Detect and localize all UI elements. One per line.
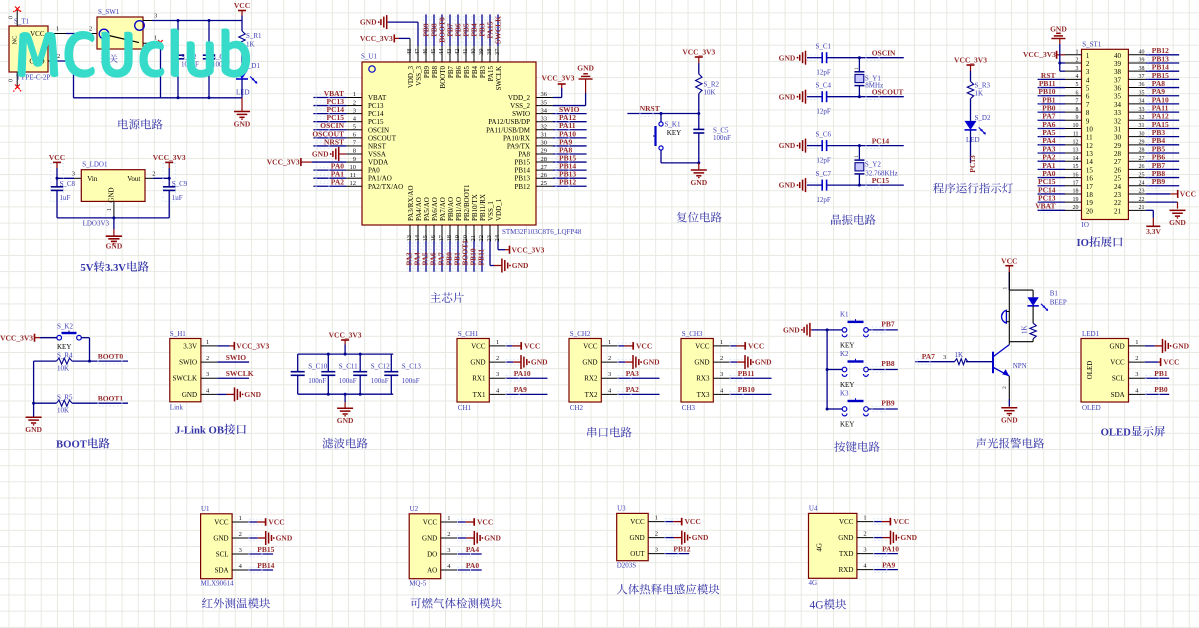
svg-text:GND: GND bbox=[106, 241, 123, 250]
svg-text:25: 25 bbox=[1139, 172, 1145, 178]
svg-text:TX1: TX1 bbox=[473, 391, 486, 399]
svg-text:38: 38 bbox=[1139, 66, 1145, 72]
svg-text:SWCLK: SWCLK bbox=[173, 375, 198, 383]
svg-text:10K: 10K bbox=[704, 88, 716, 96]
svg-text:32.768KHz: 32.768KHz bbox=[865, 170, 897, 178]
svg-text:39: 39 bbox=[1114, 60, 1122, 68]
svg-text:20: 20 bbox=[1073, 205, 1079, 211]
svg-text:SWCLK: SWCLK bbox=[495, 66, 503, 91]
svg-text:GND: GND bbox=[577, 64, 594, 73]
svg-text:PB11/RX: PB11/RX bbox=[479, 194, 487, 221]
svg-text:GND: GND bbox=[779, 92, 796, 101]
svg-text:GND: GND bbox=[1001, 416, 1018, 425]
svg-text:1: 1 bbox=[56, 26, 59, 33]
svg-text:35: 35 bbox=[1139, 90, 1145, 96]
svg-text:VDDA: VDDA bbox=[368, 159, 388, 167]
svg-text:VCC: VCC bbox=[893, 517, 909, 526]
svg-text:17: 17 bbox=[1086, 183, 1094, 191]
svg-text:GND: GND bbox=[1050, 24, 1067, 33]
svg-text:PA11/USB/DM: PA11/USB/DM bbox=[486, 126, 531, 134]
svg-text:S_H1: S_H1 bbox=[170, 330, 186, 338]
svg-text:5: 5 bbox=[1076, 82, 1079, 88]
svg-text:GND: GND bbox=[779, 181, 796, 190]
svg-text:12pF: 12pF bbox=[816, 157, 831, 165]
svg-text:15: 15 bbox=[422, 235, 429, 242]
svg-text:3: 3 bbox=[239, 547, 242, 554]
svg-text:VCC: VCC bbox=[1163, 358, 1179, 367]
svg-text:3: 3 bbox=[1076, 66, 1079, 72]
svg-text:VBAT: VBAT bbox=[1035, 202, 1055, 211]
svg-text:3: 3 bbox=[496, 371, 499, 378]
svg-text:37: 37 bbox=[1139, 74, 1145, 80]
svg-text:PA6/AO: PA6/AO bbox=[431, 197, 439, 221]
svg-text:7: 7 bbox=[1076, 99, 1079, 105]
svg-text:D203S: D203S bbox=[617, 561, 637, 569]
svg-text:15: 15 bbox=[1073, 164, 1079, 170]
svg-text:2: 2 bbox=[720, 355, 723, 362]
svg-text:35: 35 bbox=[541, 99, 548, 106]
svg-text:VDD_2: VDD_2 bbox=[508, 94, 531, 102]
svg-text:29: 29 bbox=[1139, 140, 1145, 146]
svg-text:14: 14 bbox=[1073, 156, 1079, 162]
svg-text:S_SW1: S_SW1 bbox=[98, 8, 120, 16]
svg-text:10K: 10K bbox=[57, 364, 69, 372]
svg-text:2: 2 bbox=[152, 170, 155, 177]
svg-text:VSS_3: VSS_3 bbox=[415, 66, 423, 86]
svg-text:VCC_3V3: VCC_3V3 bbox=[1023, 50, 1056, 59]
svg-text:S_T1: S_T1 bbox=[14, 18, 30, 26]
svg-text:42: 42 bbox=[454, 49, 461, 56]
svg-text:PB10/TX: PB10/TX bbox=[471, 194, 479, 221]
svg-text:44: 44 bbox=[438, 48, 445, 55]
svg-text:PA2: PA2 bbox=[331, 178, 344, 187]
svg-text:VCC: VCC bbox=[49, 153, 65, 162]
svg-text:AO: AO bbox=[427, 567, 437, 575]
svg-text:GND: GND bbox=[244, 390, 261, 399]
svg-text:PC15: PC15 bbox=[368, 118, 384, 126]
svg-text:KEY: KEY bbox=[57, 343, 71, 351]
svg-text:32: 32 bbox=[1139, 115, 1145, 121]
svg-text:17: 17 bbox=[1073, 180, 1079, 186]
svg-text:BOOT: BOOT bbox=[56, 439, 87, 451]
svg-text:2: 2 bbox=[1086, 60, 1090, 68]
svg-text:PB15: PB15 bbox=[514, 159, 530, 167]
svg-text:41: 41 bbox=[462, 49, 469, 56]
svg-text:VCC_3V3: VCC_3V3 bbox=[360, 34, 393, 43]
svg-text:S_R2: S_R2 bbox=[704, 81, 720, 89]
svg-text:S_C6: S_C6 bbox=[816, 130, 832, 138]
svg-text:11: 11 bbox=[1086, 134, 1093, 142]
svg-text:1: 1 bbox=[1076, 50, 1079, 56]
svg-text:33: 33 bbox=[1114, 109, 1122, 117]
svg-text:S_CH1: S_CH1 bbox=[458, 330, 479, 338]
svg-text:12: 12 bbox=[350, 180, 357, 187]
svg-text:31: 31 bbox=[541, 132, 548, 139]
svg-text:VCC_3V3: VCC_3V3 bbox=[329, 331, 362, 340]
svg-text:S_C9: S_C9 bbox=[172, 180, 188, 188]
svg-text:14: 14 bbox=[1086, 158, 1094, 166]
svg-text:VCC: VCC bbox=[30, 30, 45, 38]
svg-text:S_R3: S_R3 bbox=[975, 81, 991, 89]
svg-text:IO: IO bbox=[1082, 221, 1089, 229]
svg-text:3: 3 bbox=[206, 371, 209, 378]
svg-text:16: 16 bbox=[430, 234, 437, 241]
svg-text:GND: GND bbox=[1110, 342, 1125, 350]
svg-text:VDD_3: VDD_3 bbox=[407, 66, 415, 89]
svg-text:PA8: PA8 bbox=[518, 150, 530, 158]
svg-text:PA9/TX: PA9/TX bbox=[507, 142, 530, 150]
svg-text:J-Link OB: J-Link OB bbox=[175, 425, 224, 437]
svg-text:CH2: CH2 bbox=[570, 404, 584, 412]
svg-text:46: 46 bbox=[422, 48, 429, 55]
svg-text:2: 2 bbox=[496, 355, 499, 362]
svg-text:36: 36 bbox=[1139, 82, 1145, 88]
svg-text:VCC: VCC bbox=[583, 342, 598, 350]
svg-text:S_C10: S_C10 bbox=[308, 363, 328, 371]
svg-text:S_C7: S_C7 bbox=[816, 170, 832, 178]
svg-text:OSCOUT: OSCOUT bbox=[368, 134, 397, 142]
svg-text:PB8: PB8 bbox=[431, 66, 439, 79]
svg-text:S_ST1: S_ST1 bbox=[1082, 41, 1102, 49]
svg-text:PB5: PB5 bbox=[463, 66, 471, 79]
svg-text:23: 23 bbox=[1139, 189, 1145, 195]
svg-text:KEY: KEY bbox=[840, 421, 854, 429]
svg-text:NRST: NRST bbox=[640, 104, 660, 113]
svg-text:PB7: PB7 bbox=[447, 66, 455, 79]
svg-text:PB9: PB9 bbox=[881, 399, 895, 408]
svg-text:1uF: 1uF bbox=[172, 194, 183, 202]
svg-text:PA2/TX/AO: PA2/TX/AO bbox=[368, 183, 403, 191]
svg-text:0: 0 bbox=[9, 16, 15, 19]
svg-text:SWCLK: SWCLK bbox=[226, 369, 254, 378]
svg-text:OLED: OLED bbox=[1101, 427, 1132, 439]
svg-text:12pF: 12pF bbox=[816, 69, 831, 77]
svg-text:34: 34 bbox=[1114, 101, 1122, 109]
svg-text:30: 30 bbox=[1114, 134, 1122, 142]
svg-text:NRST: NRST bbox=[368, 142, 387, 150]
svg-text:PB11: PB11 bbox=[738, 369, 755, 378]
svg-text:PB11: PB11 bbox=[476, 249, 485, 266]
svg-text:24: 24 bbox=[1114, 183, 1122, 191]
svg-text:27: 27 bbox=[1114, 158, 1122, 166]
svg-text:3: 3 bbox=[1135, 371, 1138, 378]
svg-text:2: 2 bbox=[655, 531, 658, 538]
svg-text:10K: 10K bbox=[57, 406, 69, 414]
svg-text:PA7: PA7 bbox=[922, 352, 935, 361]
svg-text:VCC_3V3: VCC_3V3 bbox=[267, 158, 300, 167]
svg-text:PB4: PB4 bbox=[471, 66, 479, 79]
svg-text:36: 36 bbox=[541, 91, 548, 98]
svg-text:GND: GND bbox=[779, 53, 796, 62]
svg-text:3: 3 bbox=[447, 547, 450, 554]
svg-text:OLED: OLED bbox=[1082, 404, 1101, 412]
svg-text:PA10: PA10 bbox=[882, 544, 899, 553]
svg-text:22: 22 bbox=[478, 235, 485, 242]
svg-text:28: 28 bbox=[1114, 150, 1122, 158]
svg-text:28: 28 bbox=[1139, 148, 1145, 154]
svg-text:1: 1 bbox=[1135, 339, 1138, 346]
svg-text:33: 33 bbox=[1139, 107, 1145, 113]
svg-text:PB2/BOOT1: PB2/BOOT1 bbox=[463, 184, 471, 221]
svg-text:S_K2: S_K2 bbox=[57, 322, 73, 330]
svg-text:TX2: TX2 bbox=[585, 391, 598, 399]
svg-text:CH3: CH3 bbox=[682, 404, 696, 412]
svg-text:24: 24 bbox=[494, 234, 501, 241]
svg-text:PB6: PB6 bbox=[455, 66, 463, 79]
svg-text:VCC: VCC bbox=[1001, 256, 1017, 265]
svg-text:GND: GND bbox=[25, 425, 42, 434]
svg-text:BOOT1: BOOT1 bbox=[98, 394, 124, 403]
svg-text:3: 3 bbox=[1086, 68, 1090, 76]
svg-text:MLX90614: MLX90614 bbox=[201, 579, 235, 587]
svg-text:SDA: SDA bbox=[215, 567, 229, 575]
svg-text:4G: 4G bbox=[816, 543, 824, 552]
svg-text:16: 16 bbox=[1086, 175, 1094, 183]
svg-text:9: 9 bbox=[1086, 117, 1090, 125]
svg-text:17: 17 bbox=[438, 234, 445, 241]
svg-text:1K: 1K bbox=[955, 351, 964, 359]
svg-text:VCC_3V3: VCC_3V3 bbox=[0, 333, 33, 342]
svg-text:S_C13: S_C13 bbox=[402, 363, 422, 371]
svg-text:GND: GND bbox=[690, 178, 707, 187]
svg-text:PB1: PB1 bbox=[1154, 369, 1168, 378]
svg-text:GND: GND bbox=[783, 326, 800, 335]
svg-text:39: 39 bbox=[1139, 58, 1145, 64]
svg-text:38: 38 bbox=[486, 49, 493, 56]
svg-text:PB0: PB0 bbox=[1154, 385, 1168, 394]
svg-text:PB1/AO: PB1/AO bbox=[455, 197, 463, 221]
svg-text:13: 13 bbox=[406, 235, 413, 242]
svg-text:VCC: VCC bbox=[477, 518, 493, 527]
svg-text:GND: GND bbox=[779, 141, 796, 150]
svg-text:13: 13 bbox=[1086, 150, 1094, 158]
svg-text:DO: DO bbox=[427, 551, 437, 559]
svg-text:14: 14 bbox=[414, 234, 421, 241]
svg-text:SWCLK: SWCLK bbox=[494, 16, 503, 44]
svg-text:18: 18 bbox=[446, 235, 453, 242]
svg-text:2: 2 bbox=[206, 355, 209, 362]
svg-text:S_C12: S_C12 bbox=[371, 363, 391, 371]
svg-text:29: 29 bbox=[1114, 142, 1122, 150]
svg-text:2: 2 bbox=[57, 53, 60, 60]
svg-text:VCC: VCC bbox=[636, 342, 652, 351]
svg-text:MQ-5: MQ-5 bbox=[409, 579, 427, 587]
svg-text:10: 10 bbox=[1086, 125, 1094, 133]
svg-text:39: 39 bbox=[478, 49, 485, 56]
svg-text:VCC_3V3: VCC_3V3 bbox=[542, 74, 575, 83]
svg-text:22: 22 bbox=[1114, 199, 1122, 207]
svg-text:5: 5 bbox=[353, 123, 356, 130]
svg-text:BOOT0: BOOT0 bbox=[98, 352, 124, 361]
svg-text:SWIO: SWIO bbox=[179, 359, 197, 367]
svg-text:1: 1 bbox=[854, 155, 860, 158]
svg-text:1K: 1K bbox=[975, 90, 984, 98]
svg-text:PA3/RX/AO: PA3/RX/AO bbox=[407, 185, 415, 221]
svg-text:VCC: VCC bbox=[268, 518, 284, 527]
svg-text:32: 32 bbox=[1114, 117, 1122, 125]
svg-text:15: 15 bbox=[1086, 166, 1094, 174]
svg-text:BEEP: BEEP bbox=[1050, 299, 1067, 307]
svg-text:1: 1 bbox=[154, 35, 157, 42]
svg-text:4G: 4G bbox=[809, 600, 823, 612]
svg-text:S_R4: S_R4 bbox=[57, 351, 73, 359]
svg-text:LDO3V3: LDO3V3 bbox=[83, 219, 110, 227]
svg-text:S_U1: S_U1 bbox=[361, 53, 377, 61]
svg-text:25: 25 bbox=[541, 180, 548, 187]
svg-text:Vout: Vout bbox=[127, 175, 140, 183]
svg-text:9: 9 bbox=[353, 156, 356, 163]
svg-text:SCL: SCL bbox=[216, 551, 229, 559]
svg-text:VCC: VCC bbox=[471, 342, 486, 350]
svg-text:21: 21 bbox=[1114, 207, 1122, 215]
svg-text:1: 1 bbox=[1086, 52, 1090, 60]
svg-text:GND: GND bbox=[484, 534, 501, 543]
svg-text:1: 1 bbox=[854, 67, 860, 70]
svg-text:40: 40 bbox=[470, 49, 477, 56]
svg-text:VSS_2: VSS_2 bbox=[510, 102, 530, 110]
svg-text:3: 3 bbox=[353, 107, 356, 114]
svg-text:2: 2 bbox=[447, 531, 450, 538]
svg-text:PA10: PA10 bbox=[514, 369, 531, 378]
svg-text:PA12/USB/DP: PA12/USB/DP bbox=[488, 118, 530, 126]
svg-text:PB12: PB12 bbox=[559, 178, 576, 187]
svg-text:22: 22 bbox=[1139, 197, 1145, 203]
svg-text:VCC: VCC bbox=[839, 518, 854, 526]
svg-text:8: 8 bbox=[1086, 109, 1090, 117]
svg-text:33: 33 bbox=[541, 115, 548, 122]
svg-text:12: 12 bbox=[1073, 140, 1079, 146]
svg-text:PC13: PC13 bbox=[968, 155, 977, 173]
svg-text:100nF: 100nF bbox=[371, 377, 389, 385]
svg-text:4: 4 bbox=[1086, 76, 1090, 84]
svg-text:PB12: PB12 bbox=[514, 183, 530, 191]
svg-text:PB8: PB8 bbox=[881, 359, 895, 368]
svg-text:37: 37 bbox=[1114, 76, 1122, 84]
svg-text:8: 8 bbox=[353, 148, 356, 155]
svg-text:3: 3 bbox=[154, 13, 157, 20]
svg-text:GND: GND bbox=[213, 535, 228, 543]
svg-text:28: 28 bbox=[541, 156, 548, 163]
svg-text:LED1: LED1 bbox=[1082, 330, 1100, 338]
svg-text:PA1/AO: PA1/AO bbox=[368, 175, 392, 183]
svg-text:1: 1 bbox=[655, 515, 658, 522]
svg-text:S_CH2: S_CH2 bbox=[570, 330, 591, 338]
svg-text:PB14: PB14 bbox=[257, 561, 274, 570]
svg-text:GND: GND bbox=[182, 391, 197, 399]
svg-text:GND: GND bbox=[630, 534, 645, 542]
svg-text:GND: GND bbox=[360, 18, 377, 27]
svg-text:20: 20 bbox=[1086, 207, 1094, 215]
svg-text:Vin: Vin bbox=[87, 175, 98, 183]
svg-text:4G: 4G bbox=[809, 579, 818, 587]
svg-text:37: 37 bbox=[494, 48, 501, 55]
svg-text:19: 19 bbox=[1073, 197, 1079, 203]
svg-text:S_Y2: S_Y2 bbox=[865, 161, 881, 169]
svg-text:VCC_3V3: VCC_3V3 bbox=[512, 245, 545, 254]
svg-text:11: 11 bbox=[350, 172, 356, 179]
svg-text:GND: GND bbox=[470, 359, 485, 367]
svg-text:U3: U3 bbox=[617, 505, 626, 513]
svg-text:5: 5 bbox=[1086, 85, 1090, 93]
svg-text:VCC: VCC bbox=[214, 519, 229, 527]
svg-text:GND: GND bbox=[900, 533, 917, 542]
svg-text:27: 27 bbox=[1139, 156, 1145, 162]
svg-text:VCC: VCC bbox=[748, 342, 764, 351]
svg-text:GND: GND bbox=[234, 119, 251, 128]
svg-text:PA0: PA0 bbox=[466, 561, 479, 570]
svg-text:32: 32 bbox=[541, 123, 548, 130]
svg-text:NPN: NPN bbox=[1013, 362, 1027, 370]
svg-text:6: 6 bbox=[1086, 93, 1090, 101]
svg-text:OLED: OLED bbox=[1086, 361, 1094, 380]
svg-text:18: 18 bbox=[1073, 189, 1079, 195]
svg-text:45: 45 bbox=[430, 49, 437, 56]
svg-text:1: 1 bbox=[720, 339, 723, 346]
svg-text:PB10: PB10 bbox=[738, 385, 755, 394]
svg-text:VBAT: VBAT bbox=[368, 94, 387, 102]
svg-text:PA4/AO: PA4/AO bbox=[415, 197, 423, 221]
svg-text:VCC: VCC bbox=[1180, 190, 1196, 199]
svg-text:1: 1 bbox=[1003, 287, 1009, 290]
svg-text:VCC_3V3: VCC_3V3 bbox=[954, 56, 987, 65]
svg-text:SWIO: SWIO bbox=[512, 110, 530, 118]
svg-text:VCC: VCC bbox=[234, 1, 250, 10]
svg-text:U1: U1 bbox=[201, 505, 210, 513]
svg-text:GND: GND bbox=[694, 359, 709, 367]
svg-text:31: 31 bbox=[1139, 123, 1145, 129]
svg-text:VSSA: VSSA bbox=[368, 150, 386, 158]
svg-text:10: 10 bbox=[1073, 123, 1079, 129]
svg-text:12: 12 bbox=[1086, 142, 1094, 150]
svg-text:2: 2 bbox=[1076, 58, 1079, 64]
svg-text:BOOT0: BOOT0 bbox=[439, 66, 447, 89]
svg-text:Link: Link bbox=[170, 404, 184, 412]
svg-text:VCC_3V3: VCC_3V3 bbox=[153, 153, 186, 162]
svg-text:47: 47 bbox=[414, 48, 421, 55]
svg-text:GND: GND bbox=[755, 358, 772, 367]
svg-text:2: 2 bbox=[239, 531, 242, 538]
svg-text:3: 3 bbox=[943, 354, 946, 361]
svg-text:VCC: VCC bbox=[423, 519, 438, 527]
svg-text:VCC_3V3: VCC_3V3 bbox=[236, 342, 269, 351]
svg-text:PA10/RX: PA10/RX bbox=[503, 134, 530, 142]
svg-text:K1: K1 bbox=[840, 310, 849, 318]
svg-text:PB13: PB13 bbox=[514, 175, 530, 183]
svg-text:1: 1 bbox=[239, 515, 242, 522]
svg-text:26: 26 bbox=[1114, 166, 1122, 174]
svg-text:12pF: 12pF bbox=[816, 196, 831, 204]
svg-text:3.3V: 3.3V bbox=[183, 342, 197, 350]
svg-text:GND: GND bbox=[838, 534, 853, 542]
svg-text:11: 11 bbox=[1073, 131, 1079, 137]
svg-text:27: 27 bbox=[541, 164, 548, 171]
svg-text:VSS_1: VSS_1 bbox=[487, 201, 495, 221]
svg-text:100nF: 100nF bbox=[713, 134, 731, 142]
svg-text:13: 13 bbox=[1073, 148, 1079, 154]
svg-text:CH1: CH1 bbox=[458, 404, 472, 412]
svg-text:1uF: 1uF bbox=[60, 194, 71, 202]
svg-text:5V: 5V bbox=[80, 262, 93, 274]
svg-text:S_C1: S_C1 bbox=[816, 42, 832, 50]
svg-text:1: 1 bbox=[107, 208, 113, 211]
svg-text:B1: B1 bbox=[1050, 289, 1059, 297]
svg-text:GND: GND bbox=[643, 358, 660, 367]
svg-text:21: 21 bbox=[1139, 205, 1145, 211]
svg-text:7: 7 bbox=[1086, 101, 1090, 109]
svg-text:GND: GND bbox=[276, 534, 293, 543]
svg-text:34: 34 bbox=[1139, 99, 1145, 105]
svg-text:PA5/AO: PA5/AO bbox=[423, 197, 431, 221]
